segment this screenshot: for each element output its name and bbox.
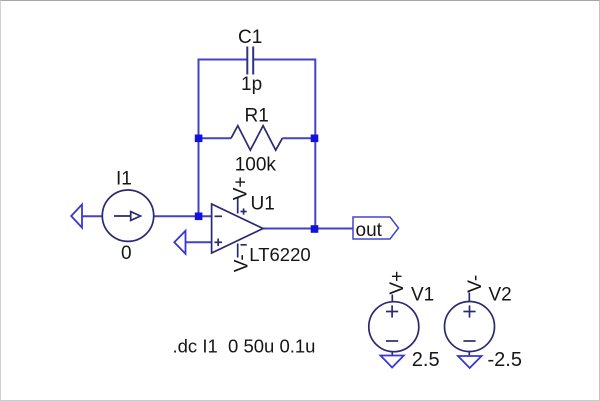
spice directive .dc <box>173 335 316 356</box>
wire <box>154 215 212 217</box>
capacitor C1 <box>247 47 253 75</box>
net flag V+ (V1 top) <box>387 271 408 295</box>
svg-text:V+: V+ <box>230 177 251 201</box>
wire <box>198 59 200 217</box>
node R1-right junction <box>311 135 319 143</box>
svg-text:LT6220: LT6220 <box>249 244 310 265</box>
current source I1 <box>102 190 153 241</box>
node output junction <box>311 225 319 233</box>
wire <box>262 228 353 230</box>
wire <box>254 59 316 61</box>
wire <box>314 59 316 230</box>
svg-text:2.5: 2.5 <box>412 349 440 371</box>
node R1-left junction <box>195 135 203 143</box>
net flag V- (op-amp bottom) <box>231 254 252 272</box>
ground (op-amp non-inverting input) <box>174 231 185 254</box>
svg-text:C1: C1 <box>238 27 262 48</box>
wire <box>186 241 212 243</box>
voltage source V2 <box>445 293 495 357</box>
net label out <box>353 217 399 241</box>
node inverting-input junction <box>195 213 203 221</box>
wire <box>282 137 314 139</box>
op-amp U1 <box>212 198 263 258</box>
ground (below V2) <box>458 356 482 368</box>
svg-text:out: out <box>356 220 383 241</box>
svg-text:V-: V- <box>465 275 486 293</box>
svg-text:1p: 1p <box>241 74 262 95</box>
svg-text:-2.5: -2.5 <box>488 349 522 371</box>
svg-text:100k: 100k <box>235 155 277 176</box>
ground (left of I1) <box>71 205 82 228</box>
svg-text:I1: I1 <box>116 169 132 190</box>
resistor R1 <box>231 126 282 151</box>
svg-text:R1: R1 <box>245 106 269 127</box>
wire <box>199 59 248 61</box>
svg-text:0: 0 <box>121 243 132 264</box>
svg-text:V2: V2 <box>489 284 512 305</box>
svg-text:U1: U1 <box>251 194 275 215</box>
net flag V+ (op-amp top) <box>230 177 251 201</box>
wire <box>199 137 232 139</box>
svg-text:V1: V1 <box>411 284 434 305</box>
svg-text:V+: V+ <box>387 271 408 295</box>
net flag V- (V2 top) <box>465 275 486 293</box>
svg-text:.dc I1 0 50u 0.1u: .dc I1 0 50u 0.1u <box>173 335 316 356</box>
voltage source V1 <box>369 295 419 357</box>
svg-text:V-: V- <box>231 254 252 272</box>
wire <box>82 215 103 217</box>
ground (below V1) <box>381 356 404 368</box>
